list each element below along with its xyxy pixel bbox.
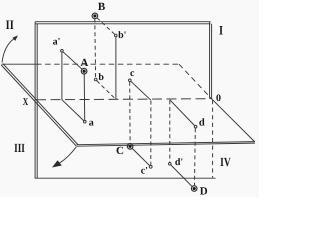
point B (circled dot): [92, 13, 98, 19]
projector a' to axis (vertical): [61, 52, 63, 100]
projector A to a (vertical): [83, 74, 86, 121]
projection a (small circle): [84, 120, 87, 123]
connector a' to A (oblique): [63, 52, 82, 69]
projector B to b (dashed vertical): [94, 19, 97, 79]
svg-text:X: X: [23, 97, 29, 108]
plane H right edge visible (diagonal to front corner): [212, 99, 255, 142]
curved arrow upper-left (rotation into quadrant II): [2, 35, 18, 62]
svg-text:a': a': [53, 37, 61, 48]
connector C to c' (oblique): [132, 148, 150, 165]
svg-text:b: b: [98, 72, 104, 83]
svg-text:a: a: [89, 118, 94, 129]
projector c to C (dashed vertical): [129, 82, 131, 144]
plane V right edge lower hidden (dashed): [212, 100, 214, 178]
projection c' (small circle): [149, 165, 152, 168]
point D (circled dot): [191, 186, 197, 192]
plane H right edge hidden (dashed diagonal): [179, 64, 212, 99]
plane H front edge (double line): [77, 142, 255, 147]
projector b' to axis (vertical): [115, 37, 117, 100]
svg-text:III: III: [14, 141, 25, 155]
svg-text:C: C: [116, 145, 124, 157]
plane V rectangle bottom edge: [35, 177, 216, 179]
connector d' to D (oblique): [171, 165, 193, 187]
projection c (small circle): [129, 79, 132, 82]
point C (circled dot): [127, 144, 133, 150]
svg-text:c': c': [141, 165, 148, 176]
projection b (small circle): [94, 78, 97, 81]
projector d to D (dashed vertical): [194, 128, 197, 185]
point A (circled dot): [81, 68, 87, 74]
projection d (small circle): [194, 125, 197, 128]
connector axis to a (oblique): [62, 100, 85, 122]
projection b' (small circle): [115, 34, 118, 37]
plane V rectangle top edge (double line): [35, 22, 211, 24]
svg-text:d': d': [175, 157, 184, 168]
svg-text:d: d: [199, 118, 205, 129]
projection a' (small circle): [61, 50, 64, 53]
curved arrow lower-left (rotation into quadrant III): [52, 147, 77, 168]
svg-text:B: B: [98, 1, 106, 13]
svg-text:0: 0: [216, 93, 221, 104]
svg-text:b': b': [118, 30, 127, 41]
X axis (dashed line from X to O): [36, 99, 212, 100]
svg-text:A: A: [80, 57, 88, 69]
svg-text:II: II: [6, 17, 14, 32]
svg-text:c: c: [130, 68, 135, 79]
plane V rectangle right edge upper (double line): [210, 22, 212, 99]
plane H left edge (double diagonal): [1, 64, 78, 146]
plane V rectangle left edge (double line): [35, 22, 37, 179]
projection d' (small circle): [169, 163, 172, 166]
connector b to axis (dashed oblique): [97, 81, 116, 100]
plane H back edge solid part (left of V): [2, 63, 36, 65]
plane H back edge hidden (dashed): [36, 63, 179, 65]
svg-text:D: D: [200, 185, 208, 197]
projector axis to d' (dashed vertical): [169, 100, 171, 162]
svg-text:IV: IV: [220, 155, 231, 169]
svg-text:I: I: [219, 22, 223, 37]
connector c to axis (oblique): [131, 81, 151, 100]
connector B to b' (dashed oblique): [97, 18, 115, 35]
projector axis to c' (dashed vertical): [150, 101, 152, 166]
connector d to axis (oblique): [170, 100, 195, 126]
